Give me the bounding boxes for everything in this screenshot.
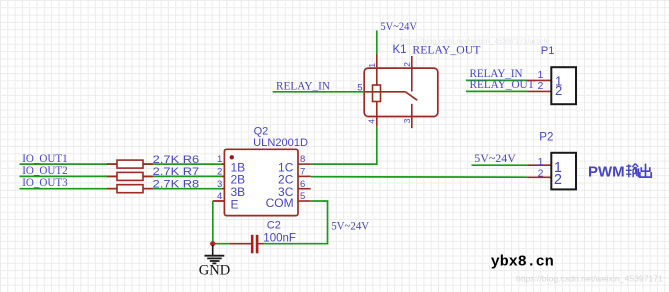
IC pin 2 <box>217 167 245 187</box>
connector P2 pin 1 number <box>538 156 544 168</box>
svg-text:5V~24V: 5V~24V <box>474 153 516 165</box>
wire 5V~24V to relay pin 1 <box>376 31 378 56</box>
svg-text:7: 7 <box>300 167 305 178</box>
relay K1 pin 5 number <box>357 82 362 93</box>
svg-text:2: 2 <box>217 167 222 178</box>
svg-text:2: 2 <box>554 172 562 188</box>
connector P2 pin 2 number <box>538 168 544 180</box>
svg-text:ULN2001D: ULN2001D <box>253 137 308 149</box>
connector P1 pin 2 number <box>537 80 543 92</box>
value label 100nF <box>263 233 296 245</box>
svg-text:PWM: PWM <box>588 163 625 180</box>
svg-text:2.7K R8: 2.7K R8 <box>153 178 200 190</box>
connector P1 body <box>551 67 576 104</box>
connector P2 inner pin 1 <box>554 160 562 176</box>
svg-text:1: 1 <box>538 156 544 168</box>
connector P1 inner pin 2 <box>555 83 562 98</box>
svg-text:K1: K1 <box>393 44 407 56</box>
wire 5V~24V to P2 pin 1 <box>472 164 528 166</box>
svg-text:3: 3 <box>217 179 222 190</box>
svg-text:https∶//blog.csdn.net/weixin_4: https∶//blog.csdn.net/weixin_45397171 <box>516 275 664 284</box>
connector P1 inner pin 1 <box>555 74 562 89</box>
wire U pin E down to ground node <box>213 201 225 244</box>
value label 2.7K R6 <box>153 154 200 166</box>
svg-text:2.7K R6: 2.7K R6 <box>153 154 200 166</box>
svg-text:GND: GND <box>199 263 230 279</box>
connector P2 inner pin 2 <box>554 172 562 188</box>
net label IO_OUT3 <box>22 177 68 189</box>
relay K1 pin 4 number <box>367 119 377 124</box>
svg-text:2: 2 <box>537 80 543 92</box>
connector P1 label <box>541 45 555 57</box>
faint watermark bottom <box>516 275 664 284</box>
relay K1 pin 1 stub <box>376 55 378 86</box>
part name ULN2001D <box>253 137 308 149</box>
IC pin 4 E <box>213 191 239 211</box>
value label 2.7K R8 <box>153 178 200 190</box>
IC pin 1 <box>217 154 245 174</box>
wire U pin 7 to P2 pin 2 <box>311 176 528 179</box>
relay K1 pin 3 number <box>402 118 412 123</box>
svg-text:ybx8.cn: ybx8.cn <box>491 254 554 270</box>
svg-text:C2: C2 <box>267 220 281 232</box>
connector P2 body <box>551 153 576 190</box>
wire IO_OUT3 to U pin 3 <box>20 188 225 190</box>
svg-text:RELAY_OUT: RELAY_OUT <box>470 79 535 91</box>
net label RELAY_OUT (P1) <box>470 79 535 91</box>
resistor R8 <box>107 185 153 193</box>
relay K1 pin 1 number <box>367 63 377 68</box>
relay K1 coil <box>373 85 381 117</box>
svg-text:6: 6 <box>300 179 305 190</box>
connector P1 pin 2 wire <box>527 90 551 92</box>
svg-text:8: 8 <box>300 154 305 165</box>
wire ground node to capacitor <box>213 243 230 245</box>
wire IO_OUT1 to U pin 1 <box>20 163 225 165</box>
wire relay pin 4 to U pin 8 <box>311 127 377 164</box>
svg-text:COM: COM <box>266 196 294 210</box>
svg-text:1: 1 <box>367 63 377 68</box>
relay K1 body <box>364 68 438 116</box>
svg-text:5V~24V: 5V~24V <box>380 21 417 33</box>
svg-text:RELAY_OUT: RELAY_OUT <box>412 44 480 56</box>
watermark ybx8.cn <box>491 254 554 270</box>
net label RELAY_OUT (at relay pin 2) <box>412 44 480 56</box>
wire IO_OUT2 to U pin 2 <box>20 175 225 177</box>
svg-text:P1: P1 <box>541 45 555 57</box>
junction dot <box>210 241 215 246</box>
relay K1 pin 5 line / armature <box>364 91 405 93</box>
label PWM output <box>588 163 651 180</box>
connector P1 pin 1 number <box>537 69 543 81</box>
connector P2 pin 1 wire <box>527 164 551 166</box>
svg-text:IO_OUT2: IO_OUT2 <box>22 165 68 177</box>
connector P2 pin 2 wire <box>527 176 551 178</box>
svg-text:E: E <box>231 197 239 211</box>
relay K1 contact lower (pin 3) <box>411 104 413 128</box>
IC pin 5 COM <box>266 191 311 210</box>
power label 5V~24V top <box>380 21 417 33</box>
svg-text:4: 4 <box>367 119 377 124</box>
relay K1 contact upper (pin 2) <box>411 56 413 92</box>
svg-text:100nF: 100nF <box>263 233 296 245</box>
power label 5V~24V (P2) <box>474 153 516 165</box>
designator K1 <box>393 44 407 56</box>
relay K1 pin 4 stub <box>376 117 378 127</box>
net label RELAY_IN (left of relay) <box>276 81 331 93</box>
ground symbol <box>205 245 225 263</box>
ground label GND <box>199 263 230 279</box>
connector P1 pin 1 wire <box>527 79 551 81</box>
IC pin 8 <box>278 154 311 174</box>
wire U COM to cap rail <box>264 201 328 244</box>
power label 5V~24V mid <box>331 221 370 233</box>
value label 2.7K R7 <box>153 166 200 178</box>
svg-text:5: 5 <box>300 191 305 202</box>
IC pin 3 <box>217 179 245 199</box>
wire RELAY_IN to P1 pin 1 <box>466 79 527 81</box>
relay K1 switch blade <box>405 92 417 100</box>
resistor R7 <box>107 172 153 180</box>
resistor R6 <box>107 160 153 168</box>
wire RELAY_OUT to P1 pin 2 <box>466 90 527 92</box>
net label RELAY_IN (P1) <box>470 68 524 80</box>
svg-text:3: 3 <box>402 118 412 123</box>
svg-text:RELAY_IN: RELAY_IN <box>276 81 331 93</box>
relay K1 pin 2 number <box>402 62 412 67</box>
IC pin 6 <box>278 179 311 199</box>
IC pin 1 marker dot <box>230 155 234 159</box>
IC pin 7 <box>278 167 311 187</box>
svg-text:Q2: Q2 <box>254 126 269 138</box>
net label IO_OUT1 <box>22 153 68 165</box>
svg-text:P2: P2 <box>539 132 553 144</box>
svg-text:2.7K R7: 2.7K R7 <box>153 166 200 178</box>
svg-text:5V~24V: 5V~24V <box>331 221 370 233</box>
svg-text:2: 2 <box>402 62 412 67</box>
net label IO_OUT2 <box>22 165 68 177</box>
svg-text:1: 1 <box>217 154 222 165</box>
faint watermark top <box>400 37 550 46</box>
designator C2 <box>267 220 281 232</box>
connector P2 label <box>539 132 553 144</box>
svg-text:2: 2 <box>555 83 562 98</box>
svg-text:2: 2 <box>538 168 544 180</box>
designator Q2 <box>254 126 269 138</box>
svg-text:IO_OUT3: IO_OUT3 <box>22 177 68 189</box>
IC U (ULN2001D) body <box>224 149 298 215</box>
capacitor C2 <box>229 235 263 254</box>
wire RELAY_IN to relay pin 5 <box>273 91 365 93</box>
